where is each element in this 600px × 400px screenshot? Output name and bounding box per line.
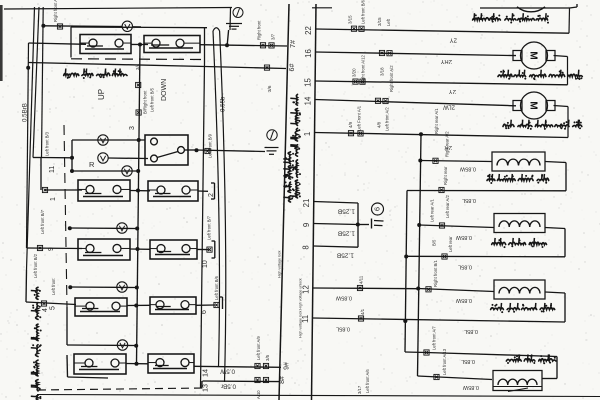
wire W8r bbox=[313, 246, 358, 247]
svg-text:4: 4 bbox=[42, 308, 49, 312]
wire W15 bbox=[315, 81, 568, 85]
svg-text:1.25B: 1.25B bbox=[336, 252, 354, 259]
connector CN7a Right front bbox=[257, 20, 266, 48]
svg-text:Right front B/1: Right front B/1 bbox=[433, 260, 438, 287]
connector CN6 3/6 bbox=[264, 65, 269, 70]
lock L1 persian label bbox=[487, 174, 549, 184]
label switch S1 persian caption bbox=[64, 69, 127, 80]
wire W14 bbox=[315, 100, 516, 106]
svg-text:1.25B: 1.25B bbox=[337, 208, 355, 215]
wire lamp LP1 right bbox=[133, 26, 142, 28]
connector CN-L4f bbox=[434, 374, 439, 379]
motor M3 label persian bbox=[503, 120, 582, 130]
svg-text:B/Right front: B/Right front bbox=[143, 90, 148, 114]
panel bottom dashed border bbox=[38, 388, 205, 390]
connector CN12 4/11 bbox=[357, 275, 363, 290]
svg-text:Left front A/7: Left front A/7 bbox=[432, 326, 437, 350]
page top border middle segment bbox=[312, 7, 332, 9]
connector CN6R bbox=[214, 302, 219, 307]
connector CN13a bbox=[255, 377, 260, 382]
connector CN-bus-b bbox=[129, 87, 155, 130]
svg-text:Left front B/7: Left front B/7 bbox=[207, 215, 212, 240]
svg-text:M: M bbox=[528, 101, 539, 109]
label panel persian vertical caption bbox=[31, 287, 42, 400]
svg-text:9: 9 bbox=[48, 247, 55, 251]
wire bus V4 bbox=[42, 7, 44, 158]
svg-text:M: M bbox=[528, 51, 539, 59]
wire lamp row 228 bbox=[68, 226, 139, 230]
ground GND2 bbox=[265, 148, 279, 155]
svg-text:Left Front A/1: Left Front A/1 bbox=[357, 105, 362, 131]
connector CN14b 3/5 bbox=[263, 354, 270, 368]
svg-text:7#: 7# bbox=[288, 40, 297, 48]
svg-text:0.5Br: 0.5Br bbox=[221, 383, 236, 390]
lamp LP7 bbox=[117, 340, 127, 350]
svg-text:14: 14 bbox=[303, 96, 312, 105]
lock L4 switch arm bbox=[508, 388, 528, 392]
svg-text:Left front: Left front bbox=[51, 278, 56, 295]
svg-text:High voltage lock: High voltage lock bbox=[278, 250, 282, 278]
wire bus V2 corner to row4 bbox=[26, 270, 76, 305]
motor M2 label persian bbox=[498, 70, 582, 80]
wire W12 bbox=[313, 287, 418, 290]
svg-text:3/15: 3/15 bbox=[377, 17, 382, 26]
switch contact box B3 bbox=[150, 240, 197, 259]
connector CN15b bbox=[360, 79, 365, 84]
svg-text:0.85W: 0.85W bbox=[459, 166, 476, 172]
svg-text:0.5W: 0.5W bbox=[220, 368, 235, 375]
svg-text:3/7: 3/7 bbox=[271, 33, 276, 40]
connector CN15a bbox=[353, 79, 358, 84]
svg-text:10: 10 bbox=[202, 260, 209, 268]
svg-text:Left rear A/1: Left rear A/1 bbox=[430, 199, 435, 222]
lamp LP2 bbox=[98, 135, 108, 145]
control unit U1 left border bbox=[279, 4, 289, 400]
lock L4 persian label bbox=[506, 354, 556, 364]
connector CN1b bbox=[358, 131, 363, 136]
svg-text:0.5BrB: 0.5BrB bbox=[22, 103, 29, 122]
connector CN-L1f Right rear A/2 bbox=[433, 131, 450, 164]
svg-text:2Y: 2Y bbox=[449, 88, 456, 94]
wire L4 return branch bbox=[405, 352, 557, 379]
ground GND3 bbox=[372, 219, 384, 229]
motor M1 arc bbox=[517, 7, 545, 12]
svg-text:0.85L: 0.85L bbox=[464, 328, 478, 334]
wire L3 feed bbox=[418, 289, 494, 292]
svg-text:Left rear: Left rear bbox=[448, 236, 453, 252]
svg-text:1: 1 bbox=[50, 197, 57, 201]
svg-text:2LW: 2LW bbox=[443, 104, 455, 110]
svg-text:Right rear A/1: Right rear A/1 bbox=[434, 108, 439, 134]
lock solenoid L2 bbox=[494, 214, 545, 233]
motor M1 return rail bbox=[568, 8, 571, 33]
ground GND1 stub bbox=[227, 30, 228, 45]
wire W9 left bbox=[27, 247, 83, 250]
wire relay row mid bbox=[33, 158, 72, 191]
bracket row3 right bbox=[212, 241, 215, 258]
svg-text:Left front B/6: Left front B/6 bbox=[214, 275, 219, 300]
wire L1 return bbox=[407, 190, 566, 192]
connector CN16a 3/20 bbox=[352, 50, 385, 77]
connector CN22b Left front B/6 bbox=[359, 0, 366, 31]
connector CN10 bbox=[207, 247, 212, 252]
svg-text:Left front B/6: Left front B/6 bbox=[361, 0, 366, 24]
switch unit S1 row1 outer box bbox=[71, 27, 207, 62]
lamp LP1 bbox=[122, 21, 132, 31]
wire row5 link bbox=[126, 362, 148, 366]
connector CN14a bbox=[255, 363, 260, 368]
wire bus 0.55b left bbox=[213, 31, 219, 367]
page bottom border bbox=[37, 395, 600, 397]
lock L3 persian label bbox=[491, 303, 555, 313]
lock solenoid L4 bbox=[493, 371, 542, 391]
wire L4 feed branch bbox=[418, 376, 493, 380]
switch contact box A5 bbox=[74, 354, 126, 374]
switch contact box A1 bbox=[80, 35, 131, 54]
wire W9r ground stub bbox=[358, 224, 369, 226]
svg-text:0.85W: 0.85W bbox=[455, 297, 472, 303]
lamp LP5 bbox=[117, 223, 127, 233]
svg-text:3/18: 3/18 bbox=[380, 67, 385, 76]
control unit U1 right border bbox=[312, 4, 317, 400]
wire W7 row1 to control unit bbox=[200, 43, 287, 47]
page top border left segment bbox=[4, 8, 232, 10]
connector CN14r b bbox=[357, 98, 389, 131]
wire row3 right bbox=[197, 248, 209, 250]
svg-text:UP: UP bbox=[97, 89, 106, 100]
lock L2 persian label bbox=[492, 238, 547, 248]
svg-text:Right front A/4: Right front A/4 bbox=[53, 0, 58, 22]
lamp LP6 bbox=[117, 282, 127, 292]
svg-text:R: R bbox=[89, 160, 95, 169]
svg-text:0.85L: 0.85L bbox=[461, 358, 475, 364]
wire W14 bottom bbox=[194, 366, 281, 367]
lock solenoid L1 bbox=[492, 152, 545, 171]
connector CN-B9 bbox=[205, 148, 210, 153]
svg-text:0.85W: 0.85W bbox=[335, 295, 352, 301]
wire L3 right link bbox=[545, 292, 565, 322]
connector CN14r a 4/9 bbox=[348, 98, 381, 128]
svg-text:11: 11 bbox=[301, 315, 310, 323]
control unit persian name column bbox=[283, 94, 301, 202]
wire W6 bbox=[28, 63, 205, 67]
wire W1 row bbox=[315, 132, 569, 137]
switch contact box B4 bbox=[150, 297, 196, 314]
svg-text:21: 21 bbox=[302, 199, 311, 208]
wire relay row top bbox=[72, 138, 145, 142]
wire relay output bbox=[184, 148, 265, 152]
wire lamp row 171 bbox=[72, 169, 140, 173]
connector CN-1L bbox=[42, 187, 47, 192]
wire lamp LP3 to relay bbox=[108, 157, 148, 160]
wire W6 right to unit bbox=[205, 67, 286, 69]
motor M2 return rail bbox=[554, 56, 568, 85]
ground GND2 circled id bbox=[267, 130, 277, 140]
connector CN7b 3/7 bbox=[269, 33, 276, 48]
page scan edge black band bbox=[0, 5, 3, 81]
svg-text:Right front A/2: Right front A/2 bbox=[389, 65, 394, 92]
connector CN-L4r bbox=[424, 350, 429, 355]
svg-text:11: 11 bbox=[49, 166, 56, 173]
motor M3 return rail bbox=[554, 106, 569, 138]
wire W-top to lamp bbox=[43, 25, 122, 28]
svg-text:Left: Left bbox=[386, 18, 391, 26]
svg-text:DOWN: DOWN bbox=[161, 79, 168, 101]
connector CN45 bbox=[41, 301, 46, 306]
wire lock return bus bbox=[403, 191, 408, 353]
connector CN22a 3/15 bbox=[348, 15, 357, 31]
lock solenoid L3 bbox=[494, 280, 545, 299]
svg-text:2RY: 2RY bbox=[440, 58, 452, 64]
wire W11 lock L3 return bbox=[313, 318, 566, 323]
ground GND1 circled id bbox=[233, 8, 243, 18]
lock L4 inner divider bbox=[493, 386, 542, 388]
wire L1 right link bbox=[545, 162, 566, 191]
wire L2 return bbox=[406, 255, 565, 258]
wire row3 link bbox=[130, 247, 150, 251]
wire panel center bus bbox=[137, 45, 141, 365]
svg-text:0.85W: 0.85W bbox=[462, 384, 479, 390]
wire lamp row 345 bbox=[67, 344, 138, 348]
wire bus V2 bbox=[27, 7, 35, 270]
bracket row2 right bbox=[211, 183, 215, 199]
wire panel right border bbox=[201, 62, 205, 388]
wire L2 right link bbox=[545, 228, 565, 257]
svg-text:Right front: Right front bbox=[257, 20, 262, 40]
wire W-row1-left bbox=[29, 43, 87, 44]
svg-text:13: 13 bbox=[201, 384, 210, 392]
svg-text:1.25B: 1.25B bbox=[337, 230, 355, 237]
wire L1 feed bbox=[420, 161, 492, 162]
wire row4 right bbox=[196, 304, 215, 306]
switch contact box A3 bbox=[78, 239, 130, 260]
svg-text:6: 6 bbox=[373, 207, 382, 211]
svg-text:4/9: 4/9 bbox=[348, 121, 353, 128]
svg-text:0.85L: 0.85L bbox=[458, 264, 472, 270]
connector CN-bus-a bbox=[136, 82, 148, 114]
switch contact box A4 bbox=[75, 298, 127, 316]
wire bus V3 bbox=[33, 7, 39, 158]
relay K1 box bbox=[145, 135, 188, 165]
motor M1 label persian bbox=[473, 13, 549, 23]
svg-text:3/17: 3/17 bbox=[357, 385, 362, 394]
svg-text:14: 14 bbox=[201, 369, 210, 377]
svg-text:4/8: 4/8 bbox=[377, 121, 382, 128]
svg-text:Left front A/13: Left front A/13 bbox=[442, 348, 447, 375]
wire W16 bbox=[315, 52, 516, 56]
svg-text:Left front B/9: Left front B/9 bbox=[208, 133, 213, 158]
svg-text:22: 22 bbox=[304, 26, 313, 35]
svg-text:12: 12 bbox=[301, 285, 310, 294]
connector CN11 4/1 bbox=[358, 308, 365, 321]
switch unit box lower-left outline bbox=[67, 307, 108, 378]
connector CN-L2r B/5 bbox=[432, 239, 448, 259]
wire lock feed bus bbox=[416, 134, 422, 376]
switch contact box B2 bbox=[148, 181, 198, 201]
connector CN9L bbox=[37, 245, 42, 250]
svg-text:0.85L: 0.85L bbox=[336, 326, 350, 332]
svg-text:16: 16 bbox=[304, 49, 313, 58]
svg-text:9#: 9# bbox=[284, 362, 291, 370]
svg-text:3/20: 3/20 bbox=[352, 68, 357, 77]
wire bus 0.55b right bbox=[220, 31, 226, 382]
ground GND3 circled 6 bbox=[372, 203, 384, 215]
svg-text:3/5: 3/5 bbox=[265, 354, 270, 361]
svg-text:Left front A/2: Left front A/2 bbox=[385, 107, 390, 131]
svg-text:Left front A/6: Left front A/6 bbox=[365, 369, 370, 393]
wire W1-row2 bbox=[45, 189, 82, 191]
svg-text:3/6: 3/6 bbox=[267, 85, 272, 92]
svg-text:0.85W: 0.85W bbox=[455, 234, 472, 240]
wire hairpin loop top bbox=[213, 28, 220, 31]
motor M2 bbox=[513, 42, 555, 69]
wire W21 bbox=[314, 202, 358, 204]
svg-text:Left front B/2: Left front B/2 bbox=[33, 253, 38, 278]
svg-text:Left front A/9: Left front A/9 bbox=[256, 336, 261, 360]
node top junction bbox=[41, 24, 45, 28]
wire row2 link bbox=[130, 189, 150, 193]
wire W9r bbox=[314, 223, 360, 227]
connector CN13b bbox=[263, 377, 268, 382]
relay K1 contacts bbox=[151, 138, 185, 162]
motor M1 box top line bbox=[480, 4, 577, 8]
motor M3 bbox=[513, 92, 555, 119]
connector CN16b bbox=[361, 51, 393, 84]
bracket row4 right bbox=[220, 297, 223, 309]
wire L2 feed bbox=[419, 225, 494, 228]
wire panel left sub-bus bbox=[70, 140, 74, 173]
connector CN-L3f bbox=[426, 260, 438, 292]
svg-text:1: 1 bbox=[303, 132, 312, 136]
wire W22 bbox=[316, 29, 570, 33]
svg-text:Left rear A/2: Left rear A/2 bbox=[445, 195, 450, 218]
svg-text:B/5: B/5 bbox=[432, 239, 437, 246]
wire W13 bottom bbox=[202, 381, 280, 389]
wire row4 link bbox=[127, 304, 150, 308]
switch contact box B5 bbox=[148, 354, 194, 373]
connector CN-L2f Left rear A/2 bbox=[439, 195, 450, 229]
lamp LP3 bbox=[98, 153, 108, 163]
svg-text:Left front B/7: Left front B/7 bbox=[40, 209, 45, 234]
wire row1 A1-B1 link bbox=[131, 43, 148, 47]
switch contact box B1 bbox=[144, 36, 200, 53]
svg-text:0.85L: 0.85L bbox=[462, 197, 476, 203]
wire bus V1 (row1 feed) bbox=[26, 43, 30, 248]
svg-text:9: 9 bbox=[302, 223, 311, 227]
svg-text:15: 15 bbox=[304, 78, 313, 87]
switch unit S1 dashed left border bbox=[64, 125, 67, 307]
svg-text:Right rear A/2: Right rear A/2 bbox=[445, 131, 450, 157]
svg-text:5: 5 bbox=[50, 306, 57, 310]
wire row2 right bbox=[198, 190, 208, 192]
svg-text:3: 3 bbox=[129, 126, 136, 130]
wire lamp row 287 bbox=[68, 285, 139, 289]
svg-text:4/11: 4/11 bbox=[359, 275, 364, 284]
panel right border top bbox=[229, 8, 232, 30]
svg-text:3/15: 3/15 bbox=[348, 15, 353, 24]
wire 1.25B vertical link bbox=[357, 203, 359, 247]
connector CN-L1r bbox=[439, 166, 448, 193]
svg-text:A/10: A/10 bbox=[256, 390, 261, 399]
lamp LP4 bbox=[122, 166, 132, 176]
svg-text:Left front B/3: Left front B/3 bbox=[45, 131, 50, 156]
svg-text:0.55b: 0.55b bbox=[220, 96, 227, 112]
svg-text:Right rear: Right rear bbox=[443, 166, 448, 185]
switch contact box A2 bbox=[78, 180, 130, 201]
svg-text:Left front B/5: Left front B/5 bbox=[150, 87, 155, 112]
svg-text:8: 8 bbox=[302, 245, 311, 249]
svg-text:6#: 6# bbox=[287, 64, 296, 72]
ground GND1 bbox=[226, 24, 242, 30]
svg-text:2Y: 2Y bbox=[450, 37, 457, 43]
svg-text:4/1: 4/1 bbox=[360, 308, 365, 315]
connector CN1a bbox=[348, 131, 353, 136]
connector CN-top Right front A/4 bbox=[53, 0, 63, 29]
